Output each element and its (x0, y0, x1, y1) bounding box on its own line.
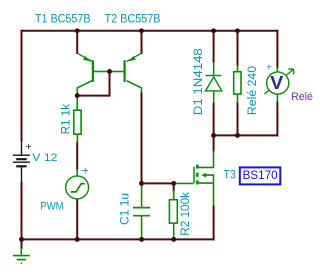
svg-text:V 12: V 12 (32, 152, 57, 164)
svg-text:T3: T3 (224, 168, 237, 182)
svg-text:Relé: Relé (291, 91, 313, 103)
svg-text:BS170: BS170 (243, 168, 278, 182)
svg-text:R2 100k: R2 100k (178, 191, 192, 236)
svg-text:+: + (26, 142, 32, 153)
svg-text:D1 1N4148: D1 1N4148 (191, 48, 205, 115)
svg-text:R1 1k: R1 1k (58, 103, 72, 134)
svg-text:V: V (270, 72, 284, 93)
svg-text:+: + (82, 165, 89, 177)
svg-text:PWM: PWM (40, 200, 63, 212)
svg-text:Relé 240: Relé 240 (245, 66, 259, 115)
svg-text:C1 1u: C1 1u (117, 193, 131, 225)
svg-text:T2 BC557B: T2 BC557B (105, 11, 161, 25)
svg-text:T1 BC557B: T1 BC557B (35, 11, 91, 25)
